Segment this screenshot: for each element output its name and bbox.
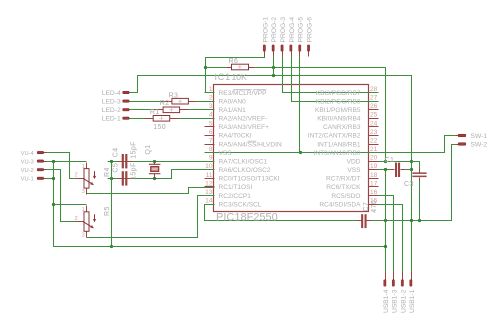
- wire crystal-cap ground vertical x=111.8 down to bottom rail: [111, 162, 113, 247]
- svg-text:KBI0/AN9/RB4: KBI0/AN9/RB4: [317, 116, 361, 123]
- resistor R2: [155, 100, 189, 112]
- IC1 pin 6 (RA4/T0CKI): [205, 129, 215, 136]
- overline marks for active-low pin names (MCLR, VPP, SS): [233, 90, 266, 142]
- IC IC1 PIC18F2550 body: [214, 85, 369, 212]
- junction Q1 top: [153, 160, 156, 163]
- svg-text:PROG-4: PROG-4: [289, 17, 296, 43]
- svg-text:17: 17: [370, 180, 378, 187]
- IC1 pin 5 (RA3/AN3/VREF+): [205, 120, 215, 127]
- wire VU-4 to R4 wiper: [47, 153, 77, 179]
- svg-text:PROG-2: PROG-2: [271, 17, 278, 43]
- svg-text:VDD: VDD: [347, 158, 361, 165]
- junction GND rail / USB1-4 vertical: [384, 219, 387, 222]
- junction VU-3 / left vertical: [52, 160, 55, 163]
- svg-text:10K: 10K: [232, 72, 248, 82]
- svg-text:PROG-6: PROG-6: [307, 17, 314, 43]
- pin VU-1: [21, 177, 47, 183]
- svg-text:PIC18F2550: PIC18F2550: [216, 211, 278, 223]
- wire OSC1 row: C4, Q1 top to pin 9: [108, 161, 215, 163]
- svg-text:22: 22: [370, 137, 378, 144]
- svg-text:11: 11: [206, 172, 213, 179]
- svg-text:Q1: Q1: [145, 144, 152, 154]
- svg-text:150: 150: [153, 124, 166, 131]
- svg-text:RC4/SDI/SDA: RC4/SDI/SDA: [319, 201, 361, 208]
- svg-text:RA1/AN1: RA1/AN1: [219, 107, 247, 114]
- svg-text:C1: C1: [385, 157, 395, 164]
- junction Q1 bottom: [153, 177, 156, 180]
- svg-text:18: 18: [370, 172, 378, 179]
- IC1 pin name labels: [219, 90, 362, 209]
- R6 value 10K: [232, 72, 248, 82]
- svg-text:RC7/RX/DT: RC7/RX/DT: [326, 176, 361, 183]
- wire PROG-4 to pin 27 (PGC/RB6): [292, 57, 379, 102]
- svg-text:RA7/CLKI/OSC1: RA7/CLKI/OSC1: [219, 158, 268, 165]
- wire VSS pin19 row to C1 left: [379, 169, 391, 171]
- wire VU-2 to R5 wiper: [47, 170, 77, 222]
- wire R6 left to MCLR vertical: [206, 67, 227, 69]
- svg-text:SW-1: SW-1: [471, 133, 488, 140]
- svg-text:RC3/SCK/SCL: RC3/SCK/SCL: [219, 201, 262, 208]
- IC1 pin 17 (RC6/TX/CK): [369, 180, 379, 187]
- svg-text:13: 13: [205, 189, 213, 196]
- svg-text:INT2/CANTX/RB2: INT2/CANTX/RB2: [308, 133, 361, 140]
- svg-text:USB1-4: USB1-4: [383, 289, 390, 313]
- svg-text:PROG-5: PROG-5: [298, 17, 305, 43]
- svg-text:6: 6: [209, 129, 213, 136]
- svg-text:RA0/AN0: RA0/AN0: [219, 98, 247, 105]
- capacitor C7 470 (VUSB): [357, 200, 378, 228]
- IC1 pin 15 (RC4/SDI/SDA): [369, 198, 379, 205]
- wire PROG-2 vertical: [273, 57, 275, 76]
- pin USB1-2: [400, 272, 407, 314]
- IC1 pin 7 (RA5/AN4/SS/HLVDIN): [205, 137, 215, 144]
- IC1 pin 12 (RC1/T1OSI): [205, 180, 215, 187]
- svg-text:2: 2: [75, 216, 78, 222]
- capacitor C4 15pF: [113, 141, 138, 168]
- resistor R1: [145, 109, 179, 131]
- IC1 pin 25 (KBI0/AN9/RB4): [369, 112, 379, 119]
- svg-text:28: 28: [370, 86, 378, 93]
- svg-text:RC1/T1OSI: RC1/T1OSI: [219, 184, 253, 191]
- pin PROG-2: [271, 17, 278, 57]
- wire MCLR net: vertical to pin 1 and run to PROG-1: [206, 57, 265, 93]
- wire VUSB pin14 to C7 left: [205, 205, 358, 221]
- svg-text:2: 2: [75, 173, 78, 179]
- svg-text:RA6/CLKO/OSC2: RA6/CLKO/OSC2: [219, 167, 271, 174]
- crystal Q1: [145, 144, 161, 178]
- wire LED-3 row to R3 to pin 2: [130, 101, 215, 103]
- svg-text:VU-2: VU-2: [21, 168, 34, 174]
- svg-text:IC1: IC1: [215, 72, 231, 82]
- IC1 designator: [215, 72, 231, 82]
- IC1 pin 20 (VDD): [369, 155, 379, 162]
- trimmer potentiometer R5: [75, 206, 111, 239]
- svg-text:LED-1: LED-1: [102, 116, 121, 123]
- svg-text:3: 3: [82, 189, 85, 195]
- junction VDD vertical / C1 right: [410, 168, 413, 171]
- pin PROG-3: [280, 17, 287, 57]
- svg-text:USB1-3: USB1-3: [391, 289, 398, 313]
- pin PROG-6: [307, 17, 314, 57]
- IC1 pin 2 (RA0/AN0): [205, 95, 215, 102]
- IC1 value PIC18F2550: [216, 211, 278, 223]
- wire VU-3 to R4 pin 1 drop: [47, 161, 87, 163]
- svg-text:SW-2: SW-2: [471, 141, 488, 148]
- IC1 pin 21 (INT0/AN10/RB0): [369, 146, 379, 153]
- IC1 pin 9 (RA7/CLKI/OSC1): [205, 155, 215, 162]
- svg-text:R1: R1: [150, 109, 160, 116]
- svg-text:4: 4: [209, 112, 213, 119]
- svg-text:19: 19: [370, 163, 378, 170]
- junction VDD rail / pin20 row: [410, 160, 413, 163]
- IC1 pin 14 (RC3/SCK/SCL): [205, 198, 215, 205]
- svg-text:1: 1: [82, 207, 85, 213]
- svg-text:INT1/AN8/RB1: INT1/AN8/RB1: [317, 141, 361, 148]
- svg-text:5: 5: [209, 120, 213, 127]
- pin SW-2: [456, 141, 488, 148]
- svg-text:16: 16: [370, 189, 378, 196]
- svg-text:20: 20: [370, 155, 378, 162]
- capacitor C5 15pF: [113, 162, 138, 185]
- wire VU-1 to left vertical: [47, 178, 54, 180]
- pin VU-4: [21, 151, 47, 157]
- capacitor C1 (decoupling): [385, 157, 405, 177]
- svg-text:RA4/T0CKI: RA4/T0CKI: [219, 133, 252, 140]
- svg-text:RC2/CCP1: RC2/CCP1: [219, 193, 252, 200]
- svg-text:PROG-3: PROG-3: [280, 17, 287, 43]
- junction C5 row / gnd vertical: [110, 177, 113, 180]
- svg-text:VU-1: VU-1: [21, 177, 34, 183]
- wire VDD pin20 row to C3 top: [379, 162, 420, 173]
- pin PROG-1: [262, 17, 269, 57]
- svg-text:USB1-1: USB1-1: [409, 289, 416, 313]
- svg-text:14: 14: [205, 198, 213, 205]
- junction R5 feed row: [52, 203, 55, 206]
- wire C3 bottom to GND rail: [419, 178, 421, 221]
- svg-text:R5: R5: [104, 206, 111, 216]
- svg-text:KBI2/PGC/RB6: KBI2/PGC/RB6: [316, 98, 361, 105]
- svg-text:24: 24: [370, 120, 378, 127]
- svg-text:C7: C7: [363, 202, 370, 212]
- svg-text:INT0/AN10/RB0: INT0/AN10/RB0: [314, 150, 361, 157]
- IC1 pin 8 (VSS): [205, 146, 215, 153]
- trimmer potentiometer R4: [75, 163, 111, 196]
- pin USB1-1: [409, 272, 416, 314]
- wire R5 pin3 to pin 13: [87, 196, 215, 238]
- svg-text:R2: R2: [160, 100, 170, 107]
- svg-text:15pF: 15pF: [130, 162, 137, 180]
- IC1 pin 16 (RC5/SDO): [369, 189, 379, 196]
- IC1 pin 3 (RA1/AN1): [205, 103, 215, 110]
- svg-text:C5: C5: [113, 163, 120, 173]
- svg-text:USB1-2: USB1-2: [400, 289, 407, 313]
- wire pin16 (D+) to USB1-3: [379, 196, 394, 272]
- capacitor C3 (decoupling): [404, 169, 427, 188]
- junction PROG-5 / VSS row: [299, 151, 302, 154]
- svg-text:RA3/AN3/VREF+: RA3/AN3/VREF+: [219, 124, 270, 131]
- svg-text:RC6/TX/CK: RC6/TX/CK: [326, 184, 361, 191]
- svg-text:PROG-1: PROG-1: [262, 17, 269, 43]
- IC1 pin 19 (VSS): [369, 163, 379, 170]
- svg-text:25: 25: [370, 112, 378, 119]
- svg-text:R3: R3: [169, 92, 179, 99]
- svg-text:7: 7: [209, 137, 213, 144]
- junction PROG-2 on VDD rail: [272, 74, 275, 77]
- wire pin15 (D-) to USB1-2: [379, 205, 403, 272]
- junction R6 net / VDD pin20 row: [384, 160, 387, 163]
- svg-text:26: 26: [370, 103, 378, 110]
- svg-text:KBI1/PGM/RB5: KBI1/PGM/RB5: [315, 107, 361, 114]
- wire R5 pin1 feed row: [54, 204, 87, 206]
- svg-text:VSS: VSS: [219, 150, 233, 157]
- svg-text:1: 1: [82, 164, 85, 170]
- svg-text:RA2/AN2/VREF-: RA2/AN2/VREF-: [219, 116, 268, 123]
- svg-text:VU-4: VU-4: [21, 151, 35, 157]
- svg-text:VU-3: VU-3: [21, 159, 34, 165]
- wire LED-1 row to R1 to pin 4: [130, 118, 215, 120]
- pin USB1-4: [383, 272, 390, 314]
- resistor R6: [227, 58, 255, 70]
- svg-text:LED-2: LED-2: [102, 107, 121, 114]
- IC1 pin 28 (KBI3/PGD/RB7): [369, 86, 379, 93]
- pin LED-3: [102, 99, 130, 106]
- svg-text:R4: R4: [104, 167, 111, 177]
- IC1 pin 11 (RC0/T1OSO/T13CKI): [205, 172, 215, 179]
- svg-text:12: 12: [205, 180, 213, 187]
- svg-text:15pF: 15pF: [130, 141, 137, 159]
- pin SW-1: [456, 133, 488, 140]
- pin LED-1: [102, 116, 130, 123]
- wire PROG-3 to pin 28 (PGD/RB7): [283, 57, 379, 93]
- svg-text:2: 2: [209, 95, 213, 102]
- pin PROG-5: [298, 17, 305, 57]
- wire left vertical x=53.3 down to bottom rail: [54, 162, 386, 247]
- IC1 pin 13 (RC2/CCP1): [205, 189, 215, 196]
- svg-text:470: 470: [371, 200, 378, 213]
- junction VU-1 row: [52, 177, 55, 180]
- pin USB1-3: [391, 272, 398, 314]
- svg-text:1: 1: [209, 86, 213, 93]
- pin VU-2: [21, 168, 47, 174]
- junction bottom rail / USB1-4: [384, 245, 387, 248]
- wire C1 right to VDD vertical: [405, 169, 412, 171]
- IC1 pin 26 (KBI1/PGM/RB5): [369, 103, 379, 110]
- pin VU-3: [21, 159, 47, 165]
- svg-text:R6: R6: [229, 58, 239, 65]
- IC1 pin 22 (INT1/AN8/RB1): [369, 137, 379, 144]
- junction C4 row / gnd vertical: [110, 160, 113, 163]
- junction PROG-2 on R6 wire: [272, 66, 275, 69]
- svg-text:27: 27: [370, 95, 378, 102]
- svg-text:3: 3: [82, 232, 85, 238]
- pin LED-4: [102, 90, 130, 97]
- svg-text:VSS: VSS: [347, 167, 361, 174]
- IC1 pin 1 (RE3/MCLR/VPP): [205, 86, 215, 93]
- wire R4 pin3 to pin 12: [87, 188, 215, 194]
- svg-text:RC5/SDO: RC5/SDO: [331, 193, 360, 200]
- svg-text:LED-4: LED-4: [102, 90, 121, 97]
- IC1 pin 23 (INT2/CANTX/RB2): [369, 129, 379, 136]
- pin PROG-4: [289, 17, 296, 57]
- junction gnd vertical / bottom rail: [110, 245, 113, 248]
- wire VSS row pin8 across IC to pin21 and SW-1: [205, 136, 456, 153]
- svg-text:CANRX/RB3: CANRX/RB3: [323, 124, 361, 131]
- junction GND rail / C3 bottom: [418, 219, 421, 222]
- svg-text:C4: C4: [113, 147, 120, 157]
- IC1 pin 24 (CANRX/RB3): [369, 120, 379, 127]
- IC1 pin 4 (RA2/AN2/VREF-): [205, 112, 215, 119]
- svg-text:RC0/T1OSO/T13CKI: RC0/T1OSO/T13CKI: [219, 176, 280, 183]
- wire GND rail from C7 right to SW-2: [371, 145, 456, 221]
- wire OSC2 row: C5 row, Q1 bottom, jog up to pin 10: [108, 170, 215, 179]
- wire LED-2 row to R2 to pin 3: [130, 109, 215, 111]
- wire PROG-5 down to VSS row: [299, 57, 301, 153]
- wire GND vertical x=385 from VSS row to USB1-4: [385, 170, 387, 272]
- junction VSS row / GND vertical: [384, 168, 387, 171]
- IC1 pin 18 (RC7/RX/DT): [369, 172, 379, 179]
- resistor R3: [164, 92, 197, 104]
- junction GND rail / VDD vertical crossing blob: [410, 219, 413, 222]
- svg-text:KBI3/PGD/RB7: KBI3/PGD/RB7: [316, 90, 361, 97]
- svg-text:RE3/MCLR/VPP: RE3/MCLR/VPP: [219, 90, 268, 97]
- svg-text:C3: C3: [404, 181, 414, 188]
- svg-text:LED-3: LED-3: [102, 99, 121, 106]
- IC1 pin 10 (RA6/CLKO/OSC2): [205, 163, 215, 170]
- svg-text:23: 23: [370, 129, 378, 136]
- IC1 pin 27 (KBI2/PGC/RB6): [369, 95, 379, 102]
- wire R6 right to VDD row (via PROG-2 junction, corner x=385): [255, 68, 386, 162]
- wire VDD top rail: LED-4 up and right to USB1-1 vertical: [130, 76, 412, 272]
- svg-text:RA5/AN4/SS/HLVDIN: RA5/AN4/SS/HLVDIN: [219, 141, 282, 148]
- junction on MCLR net at R6 left: [204, 66, 207, 69]
- svg-text:9: 9: [209, 155, 213, 162]
- pin LED-2: [102, 107, 130, 114]
